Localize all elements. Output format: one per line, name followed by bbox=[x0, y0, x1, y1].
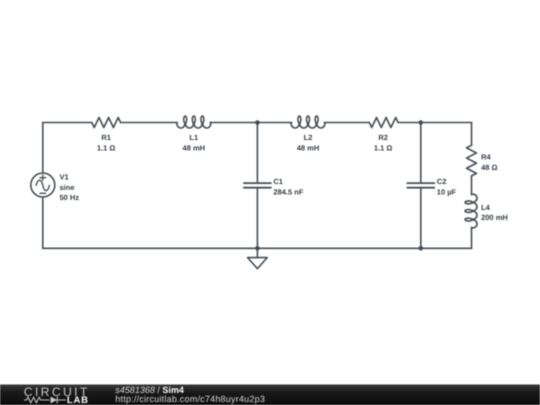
svg-text:1.1 Ω: 1.1 Ω bbox=[97, 144, 116, 153]
node D junction dot bbox=[419, 246, 424, 251]
svg-text:1.1 Ω: 1.1 Ω bbox=[374, 144, 393, 153]
svg-text:10 µF: 10 µF bbox=[437, 188, 457, 197]
wire C2 top lead bbox=[420, 123, 422, 184]
logo resistor squiggle bbox=[24, 397, 50, 403]
wire right branch upper bbox=[471, 123, 473, 146]
svg-text:200 mH: 200 mH bbox=[481, 213, 508, 222]
footer bar bbox=[0, 385, 540, 405]
svg-text:R4: R4 bbox=[481, 153, 491, 162]
inductor L1 bbox=[177, 116, 211, 128]
svg-text:V1: V1 bbox=[60, 173, 69, 182]
wire right branch lower bbox=[471, 228, 473, 249]
wire top rail segment 4 bbox=[325, 122, 370, 124]
capacitor C1 bbox=[244, 183, 271, 188]
inductor L4 bbox=[465, 194, 477, 228]
svg-text:R2: R2 bbox=[378, 133, 388, 142]
svg-text:L4: L4 bbox=[481, 203, 491, 212]
resistor R1 bbox=[92, 118, 121, 128]
svg-text:R1: R1 bbox=[101, 133, 111, 142]
wire V1 bottom lead bbox=[42, 197, 44, 248]
voltage source V1 bbox=[31, 173, 55, 197]
svg-text:LAB: LAB bbox=[67, 395, 89, 405]
svg-text:48 mH: 48 mH bbox=[183, 144, 206, 153]
capacitor C2 bbox=[407, 183, 434, 188]
svg-text:50 Hz: 50 Hz bbox=[60, 193, 80, 202]
svg-text:C2: C2 bbox=[437, 177, 447, 186]
wire top rail segment 3 bbox=[210, 122, 291, 124]
inductor L2 bbox=[291, 116, 325, 128]
node B junction dot bbox=[419, 120, 424, 125]
svg-text:C1: C1 bbox=[273, 177, 283, 186]
resistor R4 bbox=[467, 145, 477, 176]
wire top rail segment 5 bbox=[398, 122, 471, 124]
svg-text:48 Ω: 48 Ω bbox=[481, 163, 497, 172]
wire bottom rail bbox=[43, 247, 472, 249]
wire right branch middle bbox=[471, 176, 473, 195]
wire V1 top lead bbox=[42, 123, 44, 174]
svg-text:48 mH: 48 mH bbox=[297, 144, 320, 153]
resistor R2 bbox=[369, 118, 398, 128]
logo diode bbox=[51, 397, 58, 404]
svg-text:L2: L2 bbox=[304, 133, 313, 142]
wire top rail segment 2 bbox=[121, 122, 178, 124]
svg-text:http://circuitlab.com/c74h8uyr: http://circuitlab.com/c74h8uyr4u2p3 bbox=[115, 394, 265, 404]
svg-text:sine: sine bbox=[60, 183, 75, 192]
ground bbox=[248, 248, 268, 268]
wire C1 bottom lead bbox=[256, 188, 258, 249]
node A junction dot bbox=[255, 120, 260, 125]
svg-text:L1: L1 bbox=[189, 133, 198, 142]
svg-text:284.5 nF: 284.5 nF bbox=[273, 188, 303, 197]
wire C2 bottom lead bbox=[420, 188, 422, 249]
node C junction dot bbox=[255, 246, 260, 251]
wire top rail segment 1 bbox=[43, 122, 92, 124]
wire C1 top lead bbox=[256, 123, 258, 184]
